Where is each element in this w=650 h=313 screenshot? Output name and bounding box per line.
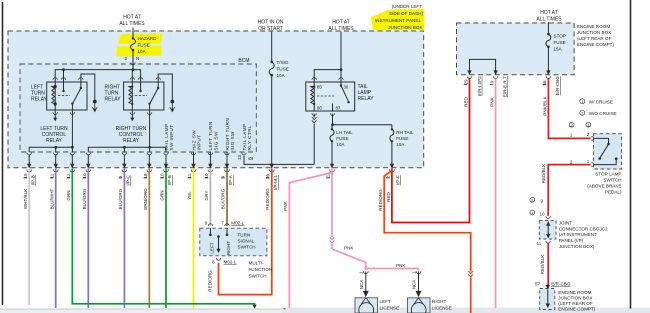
wire RED/ORG: BCM pin36 down, left to multifunction switch pin 8 (219, 168, 272, 294)
svg-text:16: 16 (143, 173, 148, 179)
fuse: STOP FUSE 15A (546, 35, 551, 47)
svg-text:30: 30 (344, 85, 349, 90)
svg-text:ENGINE ROOM: ENGINE ROOM (577, 24, 610, 29)
label: STOP LAMP SWITCH (ABOVE BRAKE PEDAL) (587, 172, 622, 195)
svg-text:11: 11 (187, 173, 192, 178)
svg-text:10: 10 (204, 173, 209, 179)
svg-text:9: 9 (118, 176, 123, 179)
svg-text:RH TAIL: RH TAIL (396, 130, 414, 135)
wire: hot-at-all-times feed to hazard fuse (132, 28, 134, 39)
wire: hot-at-all-times feed to relay pins 85/30 (314, 32, 341, 83)
svg-text:I/P-M.1: I/P-M.1 (273, 175, 278, 190)
svg-text:2: 2 (570, 159, 573, 164)
svg-text:E/R-I.I/P2: E/R-I.I/P2 (477, 76, 482, 96)
svg-text:10A: 10A (138, 49, 147, 54)
svg-text:T/SIG: T/SIG (277, 60, 289, 65)
relay K2: RIGHT TURN RELAY (124, 82, 164, 110)
wire: right relay pin C to stub terminal (158, 74, 172, 100)
svg-text:FUSE: FUSE (336, 136, 348, 141)
pin number underline dashes (23, 177, 224, 179)
label: TURN SIGNAL SWITCH (238, 233, 256, 250)
wire: hot-in-on feed down through T/SIG fuse to pin 36 exit (271, 32, 273, 168)
svg-text:9: 9 (221, 176, 226, 179)
svg-text:13: 13 (237, 155, 242, 161)
pin id texts above/below entries (569, 122, 591, 127)
svg-text:36: 36 (265, 173, 270, 179)
wire PNK: engine pin 9 long feed down (495, 79, 497, 309)
svg-text:FUSE: FUSE (554, 40, 566, 45)
svg-text:1: 1 (587, 159, 590, 164)
svg-text:15A: 15A (554, 47, 563, 52)
svg-text:FUSE: FUSE (138, 43, 150, 48)
svg-text:86: 86 (317, 106, 322, 111)
lamp leads with arrows into licence lamps (363, 271, 421, 273)
svg-text:FUNCTION: FUNCTION (249, 267, 273, 272)
svg-text:9: 9 (541, 199, 544, 204)
svg-text:(UNDER LEFT: (UNDER LEFT (392, 4, 423, 9)
svg-text:JOINT: JOINT (559, 220, 572, 225)
svg-text:56: 56 (542, 80, 547, 86)
svg-text:RIGHT: RIGHT (226, 241, 231, 255)
svg-text:RIGHT: RIGHT (432, 299, 446, 304)
svg-text:PNK/BLK: PNK/BLK (542, 95, 547, 115)
svg-text:85: 85 (317, 85, 322, 90)
svg-text:W/O CRUISE: W/O CRUISE (589, 111, 617, 116)
wire RED/ORG: RH tail fuse down right and to bottom (384, 171, 471, 313)
svg-text:29: 29 (463, 79, 468, 85)
svg-text:2: 2 (531, 198, 533, 203)
label: engine room junction box (577, 24, 614, 47)
svg-text:RED/BLK: RED/BLK (541, 163, 546, 184)
fuse: LH TAIL FUSE 10A (330, 130, 334, 142)
svg-text:15: 15 (23, 173, 28, 179)
label: TAIL LAMP RELAY (358, 84, 375, 102)
svg-text:BLU/ORG: BLU/ORG (82, 188, 87, 209)
wire: hazard into right relay pin A (131, 70, 133, 82)
svg-text:M02-L: M02-L (231, 221, 244, 226)
svg-text:10A: 10A (396, 142, 405, 147)
terminal ball + exit arrow (93, 100, 97, 104)
svg-text:E/R-E.R.T: E/R-E.R.T (502, 76, 507, 97)
connector cups on tail lamp relay (312, 78, 343, 116)
svg-text:10A: 10A (277, 73, 286, 78)
svg-text:RED/ORG: RED/ORG (378, 189, 383, 211)
svg-text:B: B (247, 157, 252, 160)
coil (54, 82, 56, 110)
connector: engine room junction box (bottom) (540, 285, 555, 310)
wire w3 GRN route to bottom arrow (72, 168, 254, 306)
BCM internal signal name labels (rotated) (164, 118, 252, 151)
svg-text:W/ CRUISE: W/ CRUISE (589, 99, 613, 104)
right window border (630, 0, 632, 309)
inline break on pin 86 wire (312, 117, 317, 123)
svg-text:NCA: NCA (359, 279, 364, 290)
label: MULTI-FUNCTION SWITCH (249, 261, 273, 279)
svg-text:GRY: GRY (204, 191, 209, 201)
svg-text:10: 10 (160, 173, 165, 179)
svg-text:SIDE OF DASH): SIDE OF DASH) (389, 11, 423, 16)
switch internals (594, 138, 617, 164)
svg-text:FUSE: FUSE (396, 136, 408, 141)
svg-text:JUNCTION BOX: JUNCTION BOX (577, 30, 611, 35)
wire: relay pin 86 control to BCM pin 13 (244, 114, 314, 165)
svg-text:RED/ORG: RED/ORG (208, 270, 213, 292)
bottom scrollbar strip (0, 308, 650, 313)
wire: left relay pin C to stub terminal (81, 74, 95, 100)
svg-text:LICENSE: LICENSE (432, 306, 452, 311)
wire stubs: BCM outputs to junction-box border (29, 152, 227, 168)
svg-text:PNK: PNK (283, 200, 288, 210)
svg-text:I/P-A: I/P-A (228, 174, 233, 185)
svg-text:I/P-C: I/P-C (126, 175, 131, 186)
svg-text:E/R-CBG: E/R-CBG (555, 76, 560, 96)
svg-text:TURN: TURN (238, 233, 251, 238)
svg-text:10A: 10A (336, 142, 345, 147)
svg-text:BLU/WHT: BLU/WHT (49, 188, 54, 209)
arrowheads at junction-box border (27, 164, 229, 169)
svg-text:9: 9 (205, 221, 208, 226)
svg-text:INPUT: INPUT (197, 134, 202, 150)
svg-text:RELAY: RELAY (31, 97, 48, 103)
connector cups below border (27, 170, 230, 172)
relay K3: TAIL LAMP RELAY (306, 82, 355, 111)
svg-text:SW INPUT: SW INPUT (169, 124, 174, 150)
wire: BCM top bus (55, 70, 140, 82)
wire PNK/BLK: stop fuse to stop lamp switch (548, 79, 590, 139)
wire: hazard fuse to BCM bus (132, 50, 134, 70)
svg-text:(AT INSTRUMENT: (AT INSTRUMENT (559, 232, 598, 237)
connector: JOINT CONNECTOR CBGJC2 (539, 216, 556, 243)
wire: feed to stop fuse (470, 22, 549, 75)
svg-text:2: 2 (124, 56, 127, 61)
svg-text:11: 11 (537, 241, 542, 246)
internal bus to pins 29 / 9 (470, 59, 496, 74)
svg-text:BRN/ORG: BRN/ORG (143, 188, 148, 210)
svg-text:(LEFT REAR OF: (LEFT REAR OF (558, 301, 593, 306)
svg-text:HAZARD: HAZARD (138, 36, 158, 41)
svg-text:(ABOVE BRAKE: (ABOVE BRAKE (587, 184, 621, 189)
coil pin stubs with ball ends (55, 110, 132, 118)
svg-text:PNK: PNK (489, 96, 494, 106)
svg-text:LH TAIL: LH TAIL (336, 130, 353, 135)
wire RED: RH tail fuse to engine room pin 29 (392, 79, 470, 223)
dashed link (58, 95, 70, 97)
label: RIGHT TURN RELAY (105, 85, 122, 103)
svg-text:BLU/ORG: BLU/ORG (118, 188, 123, 209)
svg-text:SWITCH: SWITCH (238, 245, 256, 250)
svg-text:HOT AT: HOT AT (123, 15, 141, 21)
svg-text:(LEFT REAR OF: (LEFT REAR OF (577, 36, 612, 41)
svg-text:RED: RED (463, 96, 468, 106)
fuse: T/SIG FUSE 10A (269, 63, 274, 76)
connector cups at BCM bottom edge (27, 153, 229, 155)
svg-text:SIG SW: SIG SW (230, 131, 235, 151)
svg-text:1: 1 (411, 271, 416, 274)
svg-text:RELAY: RELAY (123, 138, 140, 144)
relay pin labels (317, 85, 349, 111)
svg-text:YEL: YEL (187, 191, 192, 200)
wire: left bottom bus (29, 110, 166, 152)
svg-text:M02-L: M02-L (224, 260, 237, 265)
svg-text:2: 2 (385, 176, 390, 179)
svg-text:N: N (136, 56, 139, 61)
svg-text:I/P-B: I/P-B (167, 175, 172, 185)
BCM box (20, 64, 256, 152)
svg-text:RELAY: RELAY (105, 97, 122, 103)
svg-text:FUSE: FUSE (277, 67, 289, 72)
svg-text:WHT/BLK: WHT/BLK (23, 188, 28, 209)
svg-text:1: 1 (581, 99, 583, 104)
svg-text:RED/ORG: RED/ORG (265, 188, 270, 210)
svg-text:RED/BLK: RED/BLK (540, 254, 545, 275)
svg-text:PANEL (I/P): PANEL (I/P) (559, 238, 584, 243)
wire PNK from LH tail fuse: branch to licence lamps and long pink feed (289, 168, 418, 308)
svg-text:JUNCTION BOX: JUNCTION BOX (388, 25, 422, 30)
svg-text:RELAY: RELAY (358, 96, 375, 102)
wire: relay pin 87 to tail fuses (332, 114, 392, 168)
svg-text:HOT AT: HOT AT (332, 20, 350, 26)
svg-text:PEDAL): PEDAL) (605, 190, 622, 195)
wire: bus drop to left relay pin B (63, 70, 65, 82)
svg-text:I/P-B: I/P-B (30, 175, 35, 185)
inline break on pink wire (330, 237, 335, 243)
connector cups entering switch (208, 224, 229, 260)
svg-text:OR START: OR START (258, 26, 283, 32)
cups at switch entries (591, 136, 593, 167)
svg-text:10: 10 (540, 211, 546, 216)
svg-text:8: 8 (212, 260, 215, 265)
svg-text:11: 11 (49, 173, 54, 178)
label: RIGHT TURN CONTROL RELAY (116, 126, 147, 144)
legend W/O CRUISE (580, 110, 617, 116)
svg-text:9: 9 (489, 80, 494, 83)
legend W/ CRUISE (580, 99, 613, 105)
svg-text:12: 12 (66, 173, 71, 179)
svg-text:57: 57 (535, 282, 541, 287)
svg-text:ALL TIMES: ALL TIMES (536, 17, 562, 23)
svg-text:ENGINE COMPT): ENGINE COMPT) (558, 306, 595, 311)
switch blade (63, 82, 65, 91)
svg-text:CONNECTOR CBGJC2: CONNECTOR CBGJC2 (559, 226, 608, 231)
svg-text:JUNCTION BOX): JUNCTION BOX) (559, 244, 595, 249)
svg-text:10: 10 (82, 173, 87, 179)
svg-text:HOT AT: HOT AT (540, 10, 558, 16)
switch internals (210, 228, 227, 253)
relay K1: LEFT TURN RELAY (47, 82, 87, 110)
svg-text:PNK: PNK (344, 246, 354, 251)
svg-text:1: 1 (531, 210, 533, 215)
svg-text:SWITCH: SWITCH (249, 274, 267, 279)
svg-text:ALL TIMES: ALL TIMES (119, 21, 145, 27)
svg-text:RLY CTRL: RLY CTRL (247, 125, 252, 150)
svg-text:ALL TIMES: ALL TIMES (328, 26, 354, 32)
svg-text:LEFT: LEFT (380, 299, 391, 304)
svg-text:GRN: GRN (160, 190, 165, 200)
label: hazard fuse (138, 36, 158, 54)
pin alternatives at joint connector (530, 197, 545, 216)
svg-text:BCM: BCM (238, 58, 249, 64)
svg-text:2: 2 (587, 132, 590, 137)
svg-text:ENGINE COMPT): ENGINE COMPT) (577, 42, 614, 47)
svg-text:SIGNAL: SIGNAL (238, 239, 255, 244)
svg-text:RELAY: RELAY (46, 138, 63, 144)
lamp: RIGHT LICENSE (408, 298, 431, 313)
svg-text:PNK: PNK (396, 263, 406, 268)
svg-text:HOT IN ON: HOT IN ON (258, 20, 284, 26)
svg-text:MULTI-: MULTI- (249, 261, 264, 266)
fuse: hazard fuse F (131, 39, 136, 50)
svg-text:JUNCTION BOX: JUNCTION BOX (558, 295, 592, 300)
svg-text:ENGINE ROOM: ENGINE ROOM (558, 290, 591, 295)
svg-text:INSTRUMENT PANEL: INSTRUMENT PANEL (375, 18, 421, 23)
wire RED/BLK: joint connector down to engine room box (547, 243, 549, 288)
junction dots on bus (132, 68, 135, 71)
arrows + cups at engine box bottom (467, 70, 550, 75)
svg-text:BLK/ORG: BLK/ORG (221, 188, 226, 209)
label: LEFT TURN RELAY (31, 85, 48, 103)
svg-text:7: 7 (221, 221, 224, 226)
note text: under left side of dash (375, 4, 423, 30)
left window border (2, 2, 4, 305)
svg-text:STOP LAMP: STOP LAMP (595, 172, 621, 177)
svg-text:SWITCH: SWITCH (603, 178, 621, 183)
BCM pin 13 stub (242, 153, 246, 155)
svg-text:SIG SW: SIG SW (213, 131, 218, 151)
lamp: LEFT LICENSE (355, 298, 378, 313)
svg-text:STOP: STOP (554, 34, 566, 39)
arrows at border for pins 36 / 22 / 2 (266, 164, 394, 178)
fuse: RH TAIL FUSE 10A (390, 130, 394, 142)
svg-text:E/R-CBG: E/R-CBG (551, 282, 571, 287)
svg-text:87: 87 (336, 106, 341, 111)
svg-text:LEFT: LEFT (209, 242, 214, 253)
yellow highlight: hazard fuse (116, 34, 162, 57)
svg-text:1: 1 (359, 271, 364, 274)
engine room junction box (457, 23, 575, 75)
svg-text:GRN: GRN (66, 190, 71, 200)
svg-text:2: 2 (581, 111, 583, 116)
instrument panel junction box (large light blue dashed box) (8, 31, 424, 168)
yellow highlight: instrument panel junction box note (371, 9, 425, 30)
label: LEFT TURN CONTROL RELAY (40, 126, 68, 144)
connector cups at relay box pins (53, 78, 160, 115)
svg-text:RED: RED (386, 191, 391, 201)
svg-text:I/P-F: I/P-F (395, 175, 400, 185)
wire: right bottom bus (88, 147, 166, 152)
switch S1: STOP LAMP SWITCH (594, 134, 622, 169)
svg-text:NCA: NCA (412, 279, 417, 290)
svg-text:1: 1 (570, 133, 573, 138)
wire RED/BLK: stop lamp switch to joint connector (548, 165, 590, 216)
svg-text:LICENSE: LICENSE (380, 306, 400, 311)
